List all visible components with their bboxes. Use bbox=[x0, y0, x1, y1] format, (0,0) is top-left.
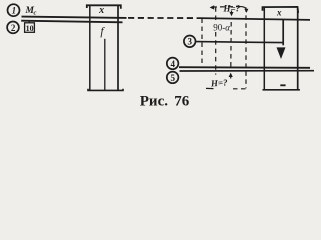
bottom bbox=[263, 89, 300, 91]
lid bbox=[87, 5, 121, 9]
box value 10 bbox=[25, 21, 35, 33]
right wall bbox=[117, 5, 119, 90]
dimension line V3 with arrows bbox=[229, 11, 234, 79]
paper background bbox=[0, 0, 321, 111]
wire line3 bbox=[196, 42, 283, 43]
svg-text:5: 5 bbox=[170, 73, 175, 83]
wire line4 bbox=[179, 66, 310, 69]
left wall bbox=[89, 5, 91, 90]
svg-text:Рис. 76: Рис. 76 bbox=[140, 93, 190, 109]
node 4 (circle label 4) bbox=[167, 58, 179, 70]
svg-text:x: x bbox=[276, 7, 282, 17]
svg-text:3: 3 bbox=[188, 37, 193, 47]
svg-text:90-α: 90-α bbox=[213, 23, 230, 33]
node 1 (circle label 1) bbox=[8, 4, 20, 16]
dimension top edge with arrow hooks bbox=[210, 5, 249, 13]
stem wire bbox=[282, 20, 284, 46]
wire line1 solid left segment bbox=[22, 17, 127, 18]
level triangle bbox=[277, 47, 286, 59]
node 2 (circle label 2) bbox=[7, 22, 19, 34]
dashed extension V1 bbox=[201, 19, 203, 66]
svg-text:2: 2 bbox=[11, 23, 16, 33]
left wall bbox=[263, 7, 265, 90]
wire line2 bbox=[21, 21, 122, 23]
dashed extension V2 bbox=[215, 7, 217, 21]
svg-text:H=?: H=? bbox=[210, 77, 229, 88]
label H=? bottom bbox=[206, 77, 246, 88]
lid bbox=[263, 7, 299, 13]
svg-text:x: x bbox=[98, 5, 104, 16]
svg-text:10: 10 bbox=[26, 24, 34, 33]
wire line1 solid right segment bbox=[200, 18, 310, 20]
svg-text:c: c bbox=[34, 10, 37, 17]
block U2 tube (x) bbox=[263, 7, 300, 90]
dashed extension V4 bbox=[245, 7, 247, 88]
node 3 (circle label 3) bbox=[184, 36, 196, 48]
right wall bbox=[297, 9, 299, 90]
wire line5 bbox=[180, 70, 315, 72]
svg-text:H=?: H=? bbox=[223, 4, 241, 14]
block U1 tube (x, f) bbox=[87, 5, 123, 90]
level dash bbox=[280, 84, 285, 86]
svg-text:1: 1 bbox=[12, 6, 17, 16]
inner pipe bbox=[104, 39, 106, 90]
label Mc bbox=[25, 6, 37, 17]
wire line1 dashed middle segment bbox=[128, 17, 200, 19]
node 5 (circle label 5) bbox=[167, 72, 179, 84]
svg-text:4: 4 bbox=[170, 59, 175, 69]
bottom bbox=[88, 89, 123, 91]
